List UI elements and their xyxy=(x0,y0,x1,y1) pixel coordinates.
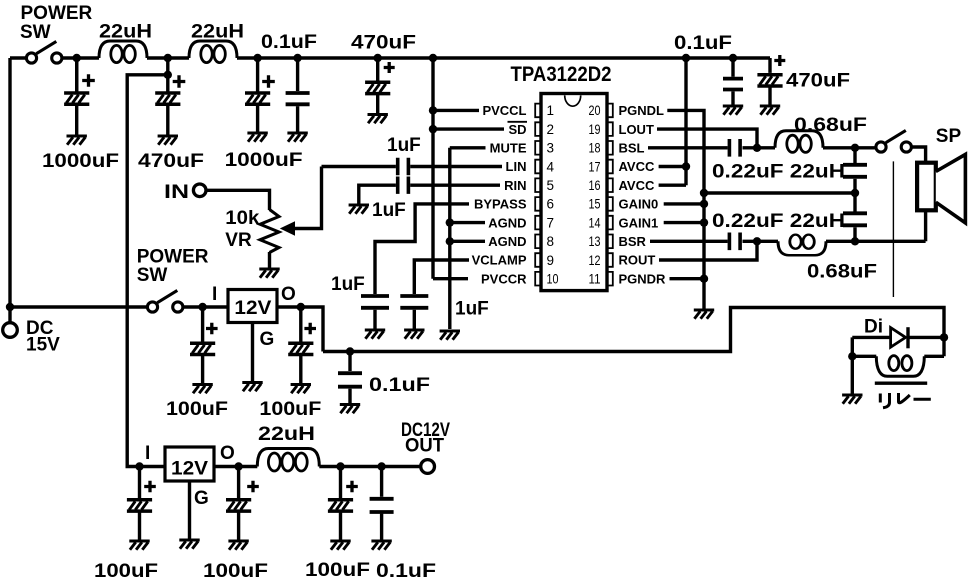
svg-text:22uH: 22uH xyxy=(99,22,152,43)
svg-text:O: O xyxy=(281,284,296,305)
svg-text:0.1uF: 0.1uF xyxy=(369,375,430,396)
svg-text:2: 2 xyxy=(547,122,555,137)
svg-text:1: 1 xyxy=(547,103,555,118)
svg-text:100uF: 100uF xyxy=(166,399,228,420)
svg-text:VR: VR xyxy=(225,230,252,251)
svg-text:6: 6 xyxy=(547,197,555,212)
svg-text:0.22uF 22uH: 0.22uF 22uH xyxy=(712,162,845,183)
svg-text:SP: SP xyxy=(936,126,962,147)
svg-text:AVCC: AVCC xyxy=(619,159,655,174)
svg-text:1000uF: 1000uF xyxy=(225,150,303,171)
svg-text:IN: IN xyxy=(164,182,189,203)
svg-text:0.22uF 22uH: 0.22uF 22uH xyxy=(712,211,845,232)
svg-text:15: 15 xyxy=(589,197,601,212)
svg-text:100uF: 100uF xyxy=(305,560,370,581)
svg-text:100uF: 100uF xyxy=(203,561,268,582)
svg-text:MUTE: MUTE xyxy=(490,141,527,156)
svg-text:10: 10 xyxy=(547,272,559,287)
svg-text:G: G xyxy=(260,329,275,350)
svg-text:BSR: BSR xyxy=(619,234,647,249)
svg-text:PGNDR: PGNDR xyxy=(619,271,667,286)
svg-text:0.1uF: 0.1uF xyxy=(376,561,436,582)
svg-text:1uF: 1uF xyxy=(387,135,421,156)
svg-text:18: 18 xyxy=(589,141,601,156)
svg-text:TPA3122D2: TPA3122D2 xyxy=(511,63,612,86)
svg-text:PVCCR: PVCCR xyxy=(481,271,527,286)
svg-text:AGND: AGND xyxy=(488,234,526,249)
svg-text:AGND: AGND xyxy=(488,215,526,230)
svg-text:17: 17 xyxy=(589,159,601,174)
svg-text:0.68uF: 0.68uF xyxy=(794,115,867,136)
svg-text:14: 14 xyxy=(589,215,601,230)
svg-text:0.1uF: 0.1uF xyxy=(261,32,317,53)
svg-text:RIN: RIN xyxy=(504,178,526,193)
svg-text:GAIN1: GAIN1 xyxy=(619,215,659,230)
svg-text:7: 7 xyxy=(547,215,555,230)
svg-text:8: 8 xyxy=(547,234,555,249)
svg-text:O: O xyxy=(220,443,235,464)
svg-text:12V: 12V xyxy=(234,298,271,319)
svg-text:VCLAMP: VCLAMP xyxy=(472,253,527,268)
svg-text:1uF: 1uF xyxy=(455,299,489,320)
svg-text:10k: 10k xyxy=(225,208,259,229)
svg-text:I: I xyxy=(145,443,150,464)
svg-text:SW: SW xyxy=(137,265,168,286)
svg-text:470uF: 470uF xyxy=(786,71,850,92)
svg-text:G: G xyxy=(194,488,209,509)
svg-text:SD: SD xyxy=(508,122,526,137)
svg-text:1uF: 1uF xyxy=(372,200,406,221)
svg-text:OUT: OUT xyxy=(405,436,444,457)
svg-text:9: 9 xyxy=(547,253,555,268)
svg-text:BYPASS: BYPASS xyxy=(474,197,527,212)
svg-text:SW: SW xyxy=(20,22,51,43)
svg-text:12: 12 xyxy=(589,253,601,268)
svg-text:15V: 15V xyxy=(26,335,60,356)
svg-text:3: 3 xyxy=(547,141,555,156)
svg-text:11: 11 xyxy=(589,272,601,287)
svg-text:GAIN0: GAIN0 xyxy=(619,197,659,212)
svg-text:1000uF: 1000uF xyxy=(42,151,119,172)
svg-text:LOUT: LOUT xyxy=(619,122,654,137)
svg-text:19: 19 xyxy=(589,122,601,137)
svg-text:ROUT: ROUT xyxy=(619,253,656,268)
svg-text:BSL: BSL xyxy=(619,141,645,156)
svg-text:I: I xyxy=(212,284,217,305)
svg-text:PGNDL: PGNDL xyxy=(619,103,665,118)
svg-text:20: 20 xyxy=(589,103,601,118)
svg-text:12V: 12V xyxy=(171,459,208,480)
svg-text:0.1uF: 0.1uF xyxy=(674,33,732,54)
svg-text:PVCCL: PVCCL xyxy=(482,103,526,118)
svg-text:5: 5 xyxy=(547,178,555,193)
svg-text:470uF: 470uF xyxy=(138,151,204,172)
svg-text:16: 16 xyxy=(589,178,601,193)
svg-text:470uF: 470uF xyxy=(351,33,416,54)
svg-text:LIN: LIN xyxy=(506,159,527,174)
svg-text:Di: Di xyxy=(864,317,883,338)
svg-text:1uF: 1uF xyxy=(331,274,365,295)
svg-text:13: 13 xyxy=(589,234,601,249)
svg-text:AVCC: AVCC xyxy=(619,178,655,193)
svg-text:22uH: 22uH xyxy=(258,424,315,445)
svg-text:4: 4 xyxy=(547,159,555,174)
svg-text:100uF: 100uF xyxy=(94,561,158,582)
svg-text:POWER: POWER xyxy=(21,3,93,24)
svg-text:100uF: 100uF xyxy=(259,399,321,420)
svg-text:22uH: 22uH xyxy=(191,22,244,43)
svg-text:0.68uF: 0.68uF xyxy=(807,262,877,283)
